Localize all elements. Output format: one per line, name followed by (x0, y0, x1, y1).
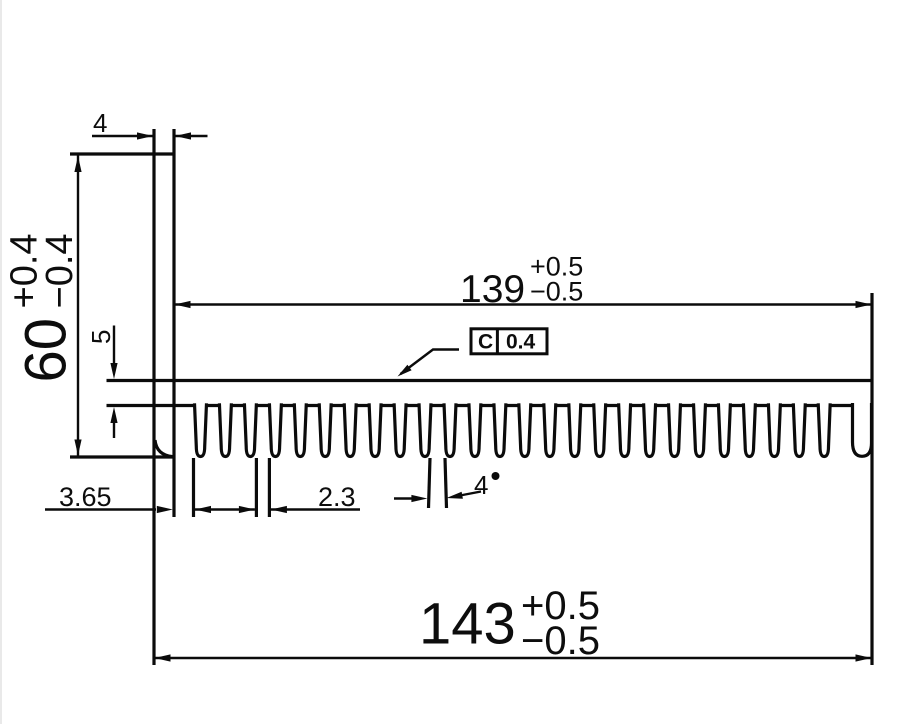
svg-text:0.4: 0.4 (506, 331, 536, 354)
dimension 139 text (460, 252, 583, 312)
svg-text:4: 4 (93, 108, 107, 138)
4deg left arrow (394, 495, 427, 502)
left wall inner edge + 3.65 extension (172, 129, 175, 517)
heatsink fins (26), white-filled to break root line (195, 403, 831, 456)
right end wall with rounded bottom (853, 403, 872, 456)
dimension 139 line with arrows (174, 301, 872, 308)
svg-text:−0.5: −0.5 (530, 277, 583, 307)
svg-text:−0.4: −0.4 (39, 233, 81, 308)
bottom-left wall fillet arc (155, 440, 173, 457)
dimension 2.3 leader arrow and text (271, 506, 360, 513)
dimension 3.65 text (59, 482, 112, 512)
2.3/3.65 extension lines from fins (194, 458, 270, 517)
bottom line at fin tip level with 60-dim extension (70, 455, 174, 458)
svg-text:3.65: 3.65 (59, 482, 112, 512)
svg-text:−0.5: −0.5 (521, 619, 600, 663)
dimension 5 rotated text (86, 330, 116, 344)
svg-text:2.3: 2.3 (318, 482, 356, 512)
4deg slot side extension lines (429, 458, 447, 508)
svg-text:143: 143 (419, 592, 516, 657)
dimension 4 text (93, 108, 107, 138)
dimension 143 text (419, 584, 600, 663)
dimension 3.65 leader and arrow (45, 506, 173, 513)
double arrow between extensions (195, 506, 255, 513)
scan edge artifact (0, 0, 2, 724)
fin root line (base bottom) with extension (107, 404, 873, 407)
dimension 5 arrows (110, 326, 117, 439)
heatsink profile: left wall outer edge + 143 extension (152, 129, 155, 665)
dimension 143 line with arrows (154, 654, 872, 661)
datum leader with arrow (398, 350, 460, 377)
svg-text:5: 5 (86, 330, 116, 344)
4deg right arrow and leader (447, 492, 482, 499)
svg-text:4: 4 (474, 470, 488, 500)
dimension 4deg text (474, 470, 500, 500)
svg-text:60: 60 (14, 318, 79, 383)
dimension 60 vertical line with arrows (74, 156, 81, 457)
right outer edge + 139/143 extensions (870, 293, 873, 665)
wall top edge with 60-dim extension (70, 152, 174, 155)
dimension 60 +0.4/-0.4 rotated text (4, 233, 82, 382)
dimension 4 (wall thickness) leader lines (92, 132, 208, 139)
datum frame C 0.4 (471, 329, 547, 354)
svg-text:C: C (478, 331, 493, 354)
svg-text:139: 139 (460, 268, 525, 311)
base top surface with 5-dim extension (107, 379, 873, 382)
